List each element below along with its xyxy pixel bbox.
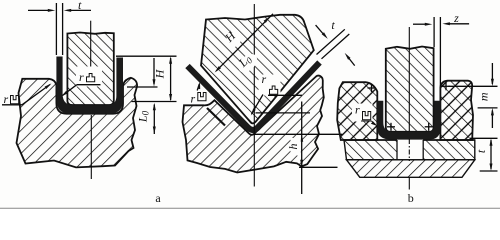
svg-text:r: r bbox=[191, 92, 196, 106]
svg-text:r: r bbox=[79, 70, 84, 84]
svg-text:m: m bbox=[476, 92, 490, 101]
svg-text:b: b bbox=[408, 191, 414, 205]
svg-text:r: r bbox=[262, 72, 267, 86]
svg-text:h: h bbox=[286, 144, 300, 150]
svg-text:z: z bbox=[453, 11, 459, 25]
svg-text:r: r bbox=[4, 92, 9, 106]
svg-text:a: a bbox=[155, 191, 161, 205]
svg-text:r: r bbox=[355, 103, 360, 117]
